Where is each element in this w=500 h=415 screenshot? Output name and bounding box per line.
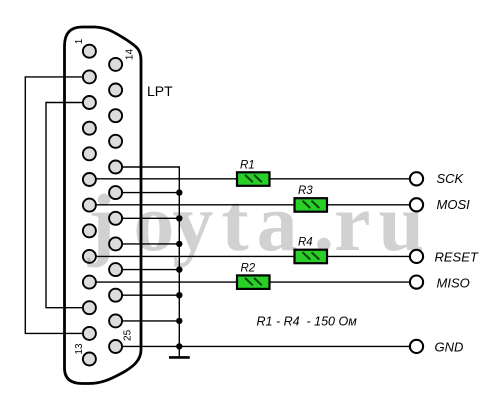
ground bus vertical with pin18 wire — [116, 167, 180, 346]
svg-text:SCK: SCK — [437, 171, 465, 186]
junction dot pin22 — [176, 266, 182, 272]
wire pin20 to bus — [116, 217, 180, 219]
left column pins 1-13 — [83, 45, 96, 366]
junction dot pin20 — [176, 215, 182, 221]
junction dot pin19 — [176, 189, 182, 195]
terminal MOSI — [410, 198, 423, 211]
connector DB25 body — [65, 27, 142, 384]
resistor R3 — [295, 198, 328, 212]
svg-text:GND: GND — [435, 340, 464, 355]
wire R1 to SCK terminal — [270, 178, 411, 180]
wire R4 to RESET terminal — [327, 255, 410, 257]
wire pin2 loop to pin12 — [25, 77, 89, 334]
svg-text:RESET: RESET — [435, 249, 479, 264]
junction dot pin23 — [176, 292, 182, 298]
wire pin19 to bus — [116, 192, 180, 194]
resistor R4 — [295, 250, 328, 264]
svg-text:LPT: LPT — [147, 83, 173, 99]
wire MISO row pin10 to R2 — [89, 281, 237, 283]
wire R2 to MISO terminal — [270, 281, 411, 283]
terminal GND — [410, 340, 423, 353]
wire MOSI row pin7 to R3 — [89, 204, 294, 206]
wire RESET row pin9 to R4 — [89, 255, 294, 257]
wire pin21 to bus — [116, 243, 180, 245]
wire R3 to MOSI terminal — [327, 204, 410, 206]
resistor R1 — [237, 172, 270, 186]
wire GND row pin25 to GND terminal — [116, 345, 410, 347]
svg-text:joyta.ru: joyta.ru — [87, 177, 432, 268]
wire pin3 loop to pin11 — [46, 103, 89, 308]
svg-text:13: 13 — [74, 343, 85, 355]
junction dot pin21 — [176, 241, 182, 247]
ground symbol — [169, 346, 190, 357]
svg-text:1: 1 — [74, 38, 85, 44]
wire pin23 to bus — [116, 294, 180, 296]
svg-text:MOSI: MOSI — [437, 197, 471, 212]
terminal MISO — [410, 276, 423, 289]
wire pin24 to bus — [116, 320, 180, 322]
junction dot pin24 — [176, 318, 182, 324]
svg-text:MISO: MISO — [437, 276, 470, 291]
terminal SCK — [410, 172, 423, 185]
svg-text:R1 - R4 - 150 Ом: R1 - R4 - 150 Ом — [257, 315, 358, 329]
svg-text:25: 25 — [123, 329, 134, 341]
terminal RESET — [410, 250, 423, 263]
junction dot GND row — [176, 343, 182, 349]
wire SCK row pin6 to R1 — [89, 178, 237, 180]
right column pins 14-25 — [109, 58, 122, 353]
wire pin22 to bus — [116, 269, 180, 271]
resistor R2 — [237, 275, 270, 289]
svg-text:R1: R1 — [240, 160, 255, 172]
svg-text:14: 14 — [125, 49, 136, 61]
